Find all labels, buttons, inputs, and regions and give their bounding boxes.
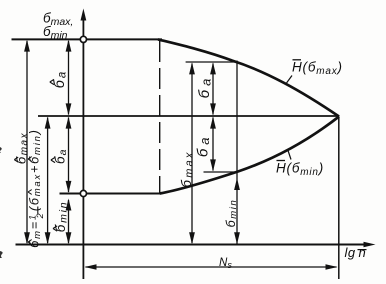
lower level line sigma-hat-min <box>60 193 163 195</box>
dim arrow sigma-hat-a lower <box>68 118 70 193</box>
hat caret E <box>53 226 57 231</box>
upper tick at sigma max level <box>186 61 237 63</box>
y axis <box>82 13 84 279</box>
dashed vertical at curve start <box>159 41 161 194</box>
svg-text:lg: lg <box>345 245 356 260</box>
dim arrow sigma-hat-m <box>47 118 49 244</box>
dim arrowheads sigma-min on x=237 line <box>234 178 240 190</box>
hat carets B <box>28 240 32 245</box>
curve H(sigma max) <box>158 39 339 116</box>
x axis arrowhead <box>364 242 376 247</box>
leader for H(sigma max) label <box>287 76 293 84</box>
vertical line at convergence tip <box>338 117 340 280</box>
leader for H(sigma min) label <box>288 151 291 160</box>
dim arrow sigma-hat-a upper <box>68 41 70 115</box>
circle marker top <box>80 36 86 42</box>
hat caret A <box>14 157 18 162</box>
dim arrow sigma-a upper (middle group) <box>212 64 214 115</box>
svg-text:бa: бa <box>195 133 213 157</box>
hat caret D <box>51 157 55 162</box>
dim arrow sigma-hat-min <box>68 200 70 243</box>
Ns dimension line <box>86 266 337 268</box>
dim arrow sigma-max (middle group) <box>191 64 193 244</box>
lower tick at sigma min level <box>204 171 238 173</box>
svg-text:n: n <box>359 245 366 260</box>
x axis <box>16 244 371 246</box>
svg-text:бa: бa <box>196 75 214 99</box>
dim arrow sigma-hat-max <box>26 41 28 243</box>
fraction bar of 1/2 in B <box>37 207 39 214</box>
top level line sigma-hat-max <box>12 38 163 40</box>
axis label sigma max, sigma min <box>43 11 73 42</box>
curve H(sigma min) <box>160 117 339 194</box>
scan smudge left edge 2 <box>0 251 3 258</box>
y axis arrowhead <box>81 9 87 21</box>
scan smudge left edge 1 <box>0 147 2 153</box>
hat caret C <box>50 79 54 84</box>
dim arrow sigma-a lower (middle group) <box>212 118 214 171</box>
middle level line sigma-hat-m <box>38 115 339 117</box>
vertical line sigma-min ordinate <box>236 61 238 245</box>
circle marker lower <box>80 190 86 196</box>
